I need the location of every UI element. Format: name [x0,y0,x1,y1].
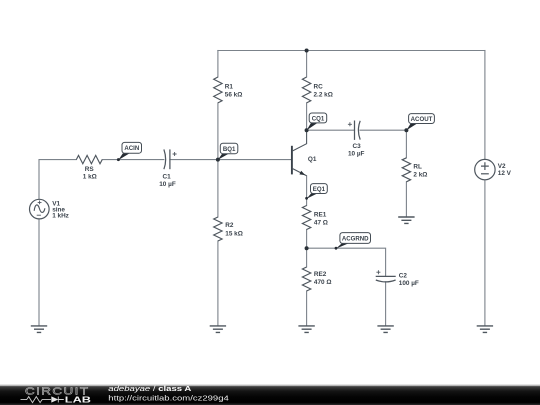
wire ACOUT node to RL [405,130,407,158]
footer logo resistor-diode line [21,397,64,403]
svg-text:10 µF: 10 µF [348,151,365,158]
voltage source V2 [475,159,512,179]
svg-text:RS: RS [85,166,95,173]
svg-text:C2: C2 [399,273,408,280]
resistor RC [302,77,332,103]
wire C3 to ACOUT node [360,129,406,131]
wire top rail [218,50,485,52]
ground C2 [377,326,393,333]
resistor R1 [214,77,243,103]
node EQ1 [305,184,327,200]
svg-text:C1: C1 [163,174,172,181]
wire emitter to RE1 [306,176,308,206]
resistor RE1 [302,206,328,230]
ground R2 [210,326,226,333]
wire RC bottom to CQ1 node [306,103,308,130]
svg-text:1 kΩ: 1 kΩ [83,174,97,181]
resistor RL [402,158,427,182]
resistor RE2 [302,267,331,291]
junction top rail / RC [305,49,309,53]
svg-text:ACOUT: ACOUT [411,116,433,123]
wire V1 bottom to ground [38,219,40,326]
svg-text:BQ1: BQ1 [223,146,236,153]
wire CQ1 node to C3 [307,129,355,131]
svg-text:LAB: LAB [65,396,92,405]
junction ACGRND node [305,246,309,250]
capacitor C1 [159,149,176,188]
svg-text:V2: V2 [498,163,506,170]
ground V2 [477,326,493,333]
svg-text:15 kΩ: 15 kΩ [225,230,243,237]
svg-text:12 V: 12 V [498,170,512,177]
svg-text:2.2 kΩ: 2.2 kΩ [314,92,333,99]
junction BQ1 node [216,158,220,162]
wire V1 top to RS corner [39,160,76,199]
wire RE2 bottom to ground [306,291,308,326]
resistor RS [76,155,102,180]
wire RS to C1 [102,159,164,161]
wire RC top [306,51,308,78]
svg-text:RC: RC [314,84,324,91]
svg-text:C3: C3 [353,143,362,150]
footer bar [0,385,540,405]
wire ACGRND node to RE2 [306,248,308,267]
svg-text:http://circuitlab.com/cz299g4: http://circuitlab.com/cz299g4 [108,394,229,403]
svg-text:470 Ω: 470 Ω [314,279,332,286]
svg-text:Q1: Q1 [308,156,317,163]
wire R1 bottom to BQ1 node [217,103,219,160]
wire V2 top [484,51,486,160]
svg-text:47 Ω: 47 Ω [314,219,328,226]
wire C1 to Q1 base [170,159,292,161]
wire R1 top [217,51,219,78]
wire V2 bottom to ground [484,180,486,326]
ground RL [398,217,414,223]
svg-text:R1: R1 [225,84,234,91]
node ACGRND [335,233,371,250]
svg-text:56 kΩ: 56 kΩ [225,92,243,99]
node BQ1 [218,143,238,160]
svg-text:RE1: RE1 [314,212,327,219]
resistor R2 [214,217,243,241]
wire ACGRND node to C2 [307,248,386,276]
junction CQ1 node [305,128,309,132]
node ACOUT [406,114,434,131]
junction ACOUT node [404,128,408,132]
svg-text:adebayae / class A: adebayae / class A [108,384,192,393]
svg-text:CQ1: CQ1 [312,115,325,122]
wire RL bottom to ground [405,182,407,217]
capacitor C2 [376,270,419,287]
wire C2 bottom to ground [385,282,387,326]
svg-text:R2: R2 [225,222,234,229]
wire R2 top [217,160,219,217]
svg-text:RE2: RE2 [314,271,327,278]
node CQ1 [307,113,327,130]
svg-text:100 µF: 100 µF [399,280,419,287]
capacitor C3 [348,121,365,158]
svg-text:1 kHz: 1 kHz [52,213,69,220]
wire RE1 bottom to ACGRND node [306,230,308,249]
svg-text:EQ1: EQ1 [313,186,326,193]
svg-text:10 µF: 10 µF [159,181,176,188]
node ACIN [117,142,142,161]
ground V1 [31,326,47,333]
wire R2 bottom to ground [217,241,219,326]
svg-text:2 kΩ: 2 kΩ [413,172,427,179]
voltage source V1 [30,199,69,219]
svg-text:ACIN: ACIN [124,145,139,152]
transistor Q1 [292,130,317,176]
svg-text:ACGRND: ACGRND [342,235,369,242]
ground RE2 [298,326,314,333]
svg-text:RL: RL [413,164,422,171]
